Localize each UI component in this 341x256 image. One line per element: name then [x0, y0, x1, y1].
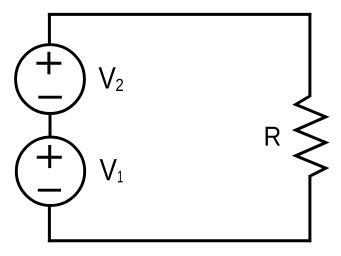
- label V2: [99, 67, 123, 91]
- wire: right side lower (resistor down to bottom-right corner): [308, 175, 311, 242]
- wire: top side: [48, 13, 311, 16]
- wire: bottom-left stub (V1 bottom to bottom-left corner): [48, 206, 51, 243]
- wire: between V2 and V1: [49, 113, 52, 139]
- label V1: [100, 159, 123, 182]
- voltage source V1: [16, 137, 84, 205]
- wire: right side upper (top-right corner down to resistor): [308, 13, 311, 97]
- voltage source V2: [16, 45, 85, 114]
- wire: top-left stub (V2 top to top-left corner): [48, 13, 51, 46]
- wire: bottom side: [48, 239, 311, 242]
- label R: [266, 127, 281, 146]
- resistor R: [296, 96, 326, 176]
